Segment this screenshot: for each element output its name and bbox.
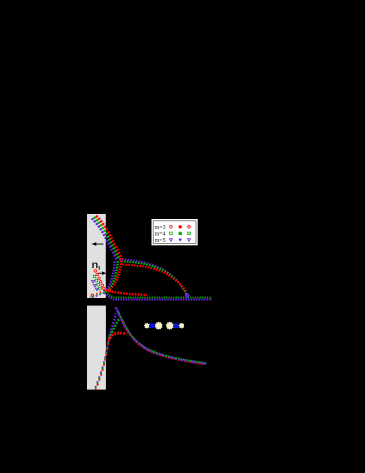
inset atom 3 large: [166, 322, 174, 330]
panel 1 junction violet dot: [185, 293, 190, 298]
grey shaded band panel 2: [87, 306, 106, 390]
panel 2 red hook: [109, 333, 126, 341]
panel 2 band chain red: [95, 342, 108, 390]
panel 2 hyperbola violet: [116, 307, 206, 364]
panel 1 violet dip to horizontal: [105, 293, 213, 300]
legend box: [152, 219, 198, 245]
panel 1 below-crossing mixed chain violet: [91, 293, 104, 298]
arrow left upper: [96, 243, 104, 246]
panel 1 diagonal curve violet: [92, 218, 117, 260]
legend row2 green symbols: [170, 232, 173, 235]
panel 1 green dip to horizontal: [106, 292, 213, 298]
panel 2 band chain violet: [95, 340, 108, 388]
panel 1 upper arc violet: [119, 260, 187, 295]
panel 1 open violet triangle chain: [92, 281, 99, 291]
panel 1 open red circle chain: [91, 270, 105, 297]
panel 1 red sweep to horizontal: [106, 291, 147, 296]
panel 1 diagonal curve green: [94, 217, 119, 259]
grey shaded band panel 1: [87, 214, 106, 298]
panel 2 hyperbola red: [121, 319, 205, 365]
panel 1 open green square chain: [93, 275, 101, 290]
label n1 drawn as path: [92, 263, 97, 269]
panel 1 upper arc green: [121, 262, 187, 296]
panel 1 diagonal curve red: [96, 216, 121, 258]
svg-text:m=4: m=4: [155, 231, 166, 237]
panel 1 violet descender: [105, 262, 115, 292]
panel 2 band chain green: [95, 341, 108, 389]
legend row3 violet symbols: [169, 239, 172, 242]
panel 1 below-crossing mixed chain red: [91, 291, 105, 297]
inset atom 1 small: [144, 323, 150, 329]
svg-text:m=3: m=3: [155, 225, 166, 231]
panel 2 violet riser: [108, 314, 116, 340]
inset atom bond 1: [149, 324, 155, 328]
legend row1 red symbols: [170, 226, 173, 229]
panel 2 green riser: [109, 319, 119, 338]
panel 1 upper arc red: [123, 265, 187, 292]
inset atom 2 large: [155, 322, 163, 330]
inset atom bond 2: [173, 324, 179, 328]
svg-text:m=5: m=5: [155, 238, 166, 244]
panel 1 green descender: [106, 261, 118, 291]
panel 1 below-crossing mixed chain green: [90, 292, 105, 297]
panel 2 hyperbola green: [118, 312, 206, 363]
inset atom 4 small: [179, 323, 185, 329]
arrow right at n1: [99, 272, 103, 275]
panel 1 red S descender: [106, 258, 121, 291]
panel 1 red blob at crossing: [108, 289, 112, 293]
